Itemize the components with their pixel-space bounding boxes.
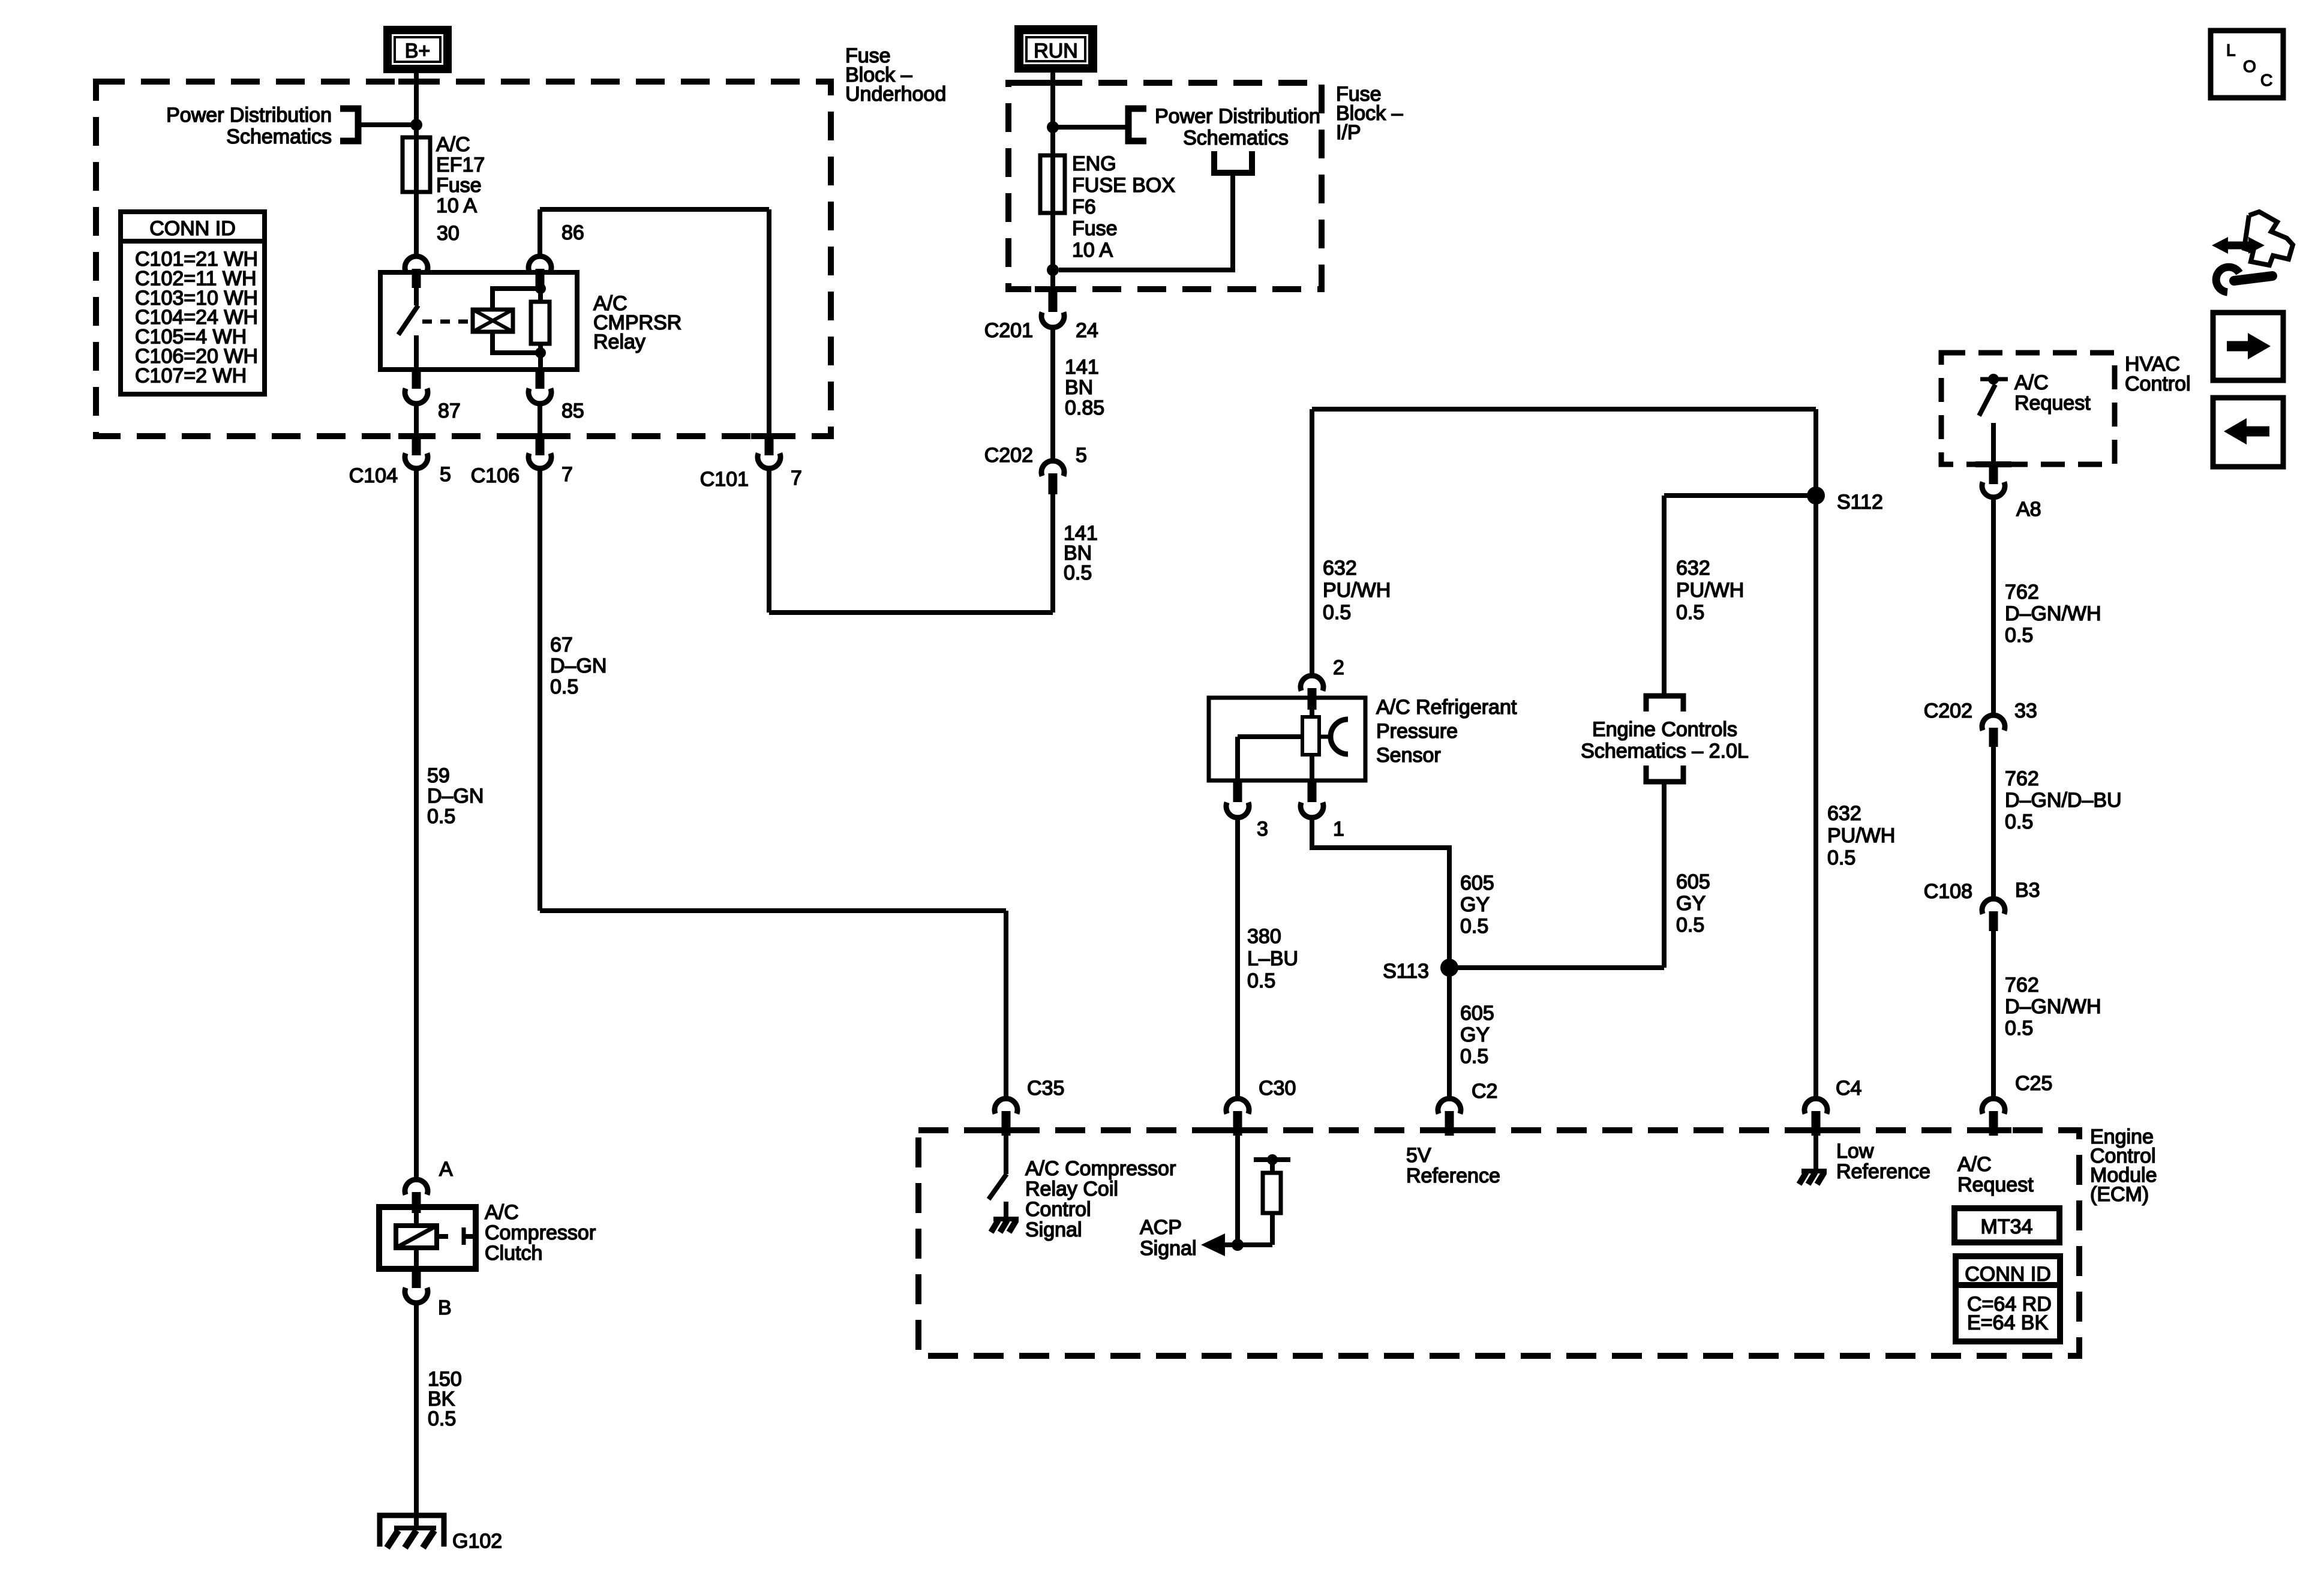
ACP signal line: [1223, 1242, 1272, 1247]
relay switch fixed contact stub: [414, 272, 419, 305]
wire C104 to compressor clutch A (59 D-GN): [414, 469, 419, 1178]
label ENG FUSE BOX F6 Fuse 10 A: [1072, 152, 1175, 262]
svg-text:(ECM): (ECM): [2090, 1183, 2149, 1206]
label pin B of clutch: [438, 1296, 452, 1319]
connector pin B of clutch: [405, 1269, 428, 1303]
wire sensor pin 3 to ECM C30 (380 L-BU): [1235, 818, 1240, 1096]
wire label 380 L-BU 0.5: [1247, 925, 1298, 992]
wire S112 to engine controls corner: [1664, 493, 1816, 498]
svg-text:GY: GY: [1460, 1023, 1490, 1046]
connector pin 3 of sensor: [1226, 781, 1249, 818]
svg-text:MT34: MT34: [1981, 1215, 2033, 1238]
connector pin 86 of relay: [529, 256, 551, 288]
svg-text:5: 5: [440, 463, 451, 486]
label Engine Control Module (ECM): [2090, 1125, 2157, 1206]
connector C201 pin 24: [1041, 289, 1064, 328]
label HVAC Control: [2125, 353, 2191, 395]
svg-text:A8: A8: [2016, 498, 2041, 521]
svg-text:C201: C201: [984, 319, 1033, 342]
svg-text:C104: C104: [349, 464, 398, 487]
A/C request switch dot: [1988, 374, 1999, 385]
border tick HVAC bottom: [1975, 461, 2011, 467]
wire label 605 GY 0.5 (above S113): [1460, 872, 1494, 938]
svg-text:Pressure: Pressure: [1376, 720, 1458, 743]
svg-text:Engine Controls: Engine Controls: [1592, 718, 1737, 741]
diagnostic icon component outline: [2244, 212, 2293, 265]
pin number 30: [437, 222, 460, 245]
ECM wire rail to resistor: [1270, 1160, 1275, 1173]
svg-text:B+: B+: [405, 40, 431, 62]
ECM CONN ID table: [1956, 1256, 2060, 1341]
svg-text:C107=2 WH: C107=2 WH: [135, 364, 247, 387]
svg-text:CONN ID: CONN ID: [1965, 1263, 2051, 1286]
svg-text:A/C: A/C: [436, 133, 470, 156]
svg-text:0.5: 0.5: [2005, 1017, 2033, 1040]
power feed symbol RUN: [1014, 25, 1097, 73]
border tick I/P bottom: [1035, 286, 1071, 292]
wire C101 to C202 run (141 BN): [769, 469, 1053, 613]
wire C202 down to corner (141 BN 0.5): [1050, 494, 1055, 613]
A/C request switch contact bar: [1980, 377, 2008, 382]
connector C101 pin 7: [758, 436, 780, 469]
svg-text:605: 605: [1460, 872, 1494, 894]
svg-text:O: O: [2243, 57, 2256, 76]
wire label 632 PU/WH 0.5 (S112-C4): [1827, 802, 1895, 869]
wire label 632 PU/WH 0.5 (engine controls): [1676, 557, 1744, 624]
connector pin 2 of sensor: [1301, 676, 1323, 710]
svg-text:0.5: 0.5: [1064, 562, 1092, 584]
label S112: [1837, 491, 1883, 514]
svg-text:C4: C4: [1836, 1077, 1861, 1100]
svg-text:BN: BN: [1065, 376, 1093, 399]
svg-text:762: 762: [2005, 974, 2039, 996]
svg-text:7: 7: [562, 463, 573, 486]
wire bracket to B+ node: [358, 122, 416, 127]
label C108: [1924, 880, 1972, 903]
wire fuse to relay pin 30: [414, 192, 419, 254]
svg-text:C202: C202: [1924, 700, 1972, 722]
svg-text:0.5: 0.5: [427, 805, 455, 828]
wire node to fuse F6: [1050, 127, 1055, 155]
ECM wire below C30: [1235, 1136, 1240, 1245]
svg-text:0.85: 0.85: [1065, 397, 1104, 419]
wire node to fuse: [414, 125, 419, 137]
svg-text:A/C Refrigerant: A/C Refrigerant: [1376, 696, 1517, 719]
ECM internal rail above resistor: [1254, 1157, 1290, 1162]
junction dot fuse F6 output: [1047, 264, 1059, 276]
svg-text:PU/WH: PU/WH: [1676, 579, 1744, 602]
bracket above Engine Controls Schematics: [1646, 696, 1683, 712]
svg-text:GY: GY: [1676, 892, 1706, 915]
svg-text:A/C Compressor: A/C Compressor: [1025, 1157, 1176, 1180]
svg-text:Schematics: Schematics: [1183, 127, 1289, 149]
label C106: [471, 464, 520, 487]
wire B+ to fuse EF17 node: [414, 73, 419, 126]
wire sensor pin 1 to S113 to C2 (605 GY): [1312, 818, 1449, 1096]
MT34 reference box: [1954, 1208, 2059, 1242]
fuse ENG FUSE BOX F6 10A: [1040, 155, 1065, 213]
connector A8 of HVAC control: [1982, 466, 2005, 497]
ACP signal arrowhead: [1201, 1233, 1225, 1256]
svg-text:A: A: [439, 1158, 453, 1181]
svg-text:C202: C202: [984, 444, 1033, 467]
svg-text:D–GN/WH: D–GN/WH: [2005, 995, 2101, 1018]
svg-text:ACP: ACP: [1140, 1216, 1182, 1239]
ground symbol at C4 low reference: [1799, 1171, 1827, 1184]
ECM driver switch blade: [989, 1174, 1007, 1199]
svg-text:Signal: Signal: [1140, 1237, 1197, 1260]
svg-text:B3: B3: [2015, 879, 2040, 902]
wire C202-33 to C108 (762 D-GN/D-BU): [1991, 747, 1996, 896]
ground G102 symbol: [380, 1515, 444, 1548]
svg-text:10 A: 10 A: [1072, 239, 1113, 262]
LOC legend box: [2211, 31, 2283, 98]
svg-text:C2: C2: [1472, 1080, 1497, 1103]
forward arrow box: [2213, 313, 2283, 380]
fuse A/C EF17 10A: [403, 137, 430, 192]
connector pin 87 of relay: [405, 370, 428, 404]
bracket under Schematics (I/P): [1214, 151, 1252, 173]
relay switch blade: [398, 305, 418, 335]
svg-text:0.5: 0.5: [1323, 601, 1351, 624]
svg-text:Low: Low: [1836, 1140, 1874, 1163]
label Fuse Block - I/P: [1336, 83, 1403, 144]
label pin A of clutch: [439, 1158, 453, 1181]
svg-text:33: 33: [2014, 700, 2037, 722]
svg-text:C30: C30: [1259, 1077, 1296, 1100]
label A/C Compressor Relay Coil Control Signal: [1025, 1157, 1176, 1241]
svg-text:L: L: [2226, 41, 2236, 59]
svg-text:7: 7: [791, 467, 802, 490]
svg-text:30: 30: [437, 222, 460, 245]
svg-text:2: 2: [1333, 656, 1344, 679]
label C4: [1836, 1077, 1861, 1100]
svg-text:1: 1: [1333, 818, 1344, 840]
label pin 24 of C201: [1076, 319, 1098, 342]
connector pin 85 of relay: [529, 370, 551, 404]
svg-text:C: C: [2260, 71, 2272, 89]
junction dot at B+ feed: [410, 119, 422, 131]
label pin 5 of C104: [440, 463, 451, 486]
label pin 3 of sensor: [1257, 818, 1268, 840]
label S113: [1383, 960, 1429, 983]
svg-text:0.5: 0.5: [2005, 624, 2033, 647]
junction dot RUN feed: [1047, 121, 1059, 133]
svg-text:24: 24: [1076, 319, 1098, 342]
relay actuation dashed link: [422, 320, 472, 324]
power feed symbol B+: [383, 26, 452, 73]
svg-text:EF17: EF17: [436, 154, 485, 176]
sensor transducer element: [1302, 717, 1319, 755]
svg-text:C25: C25: [2015, 1072, 2052, 1095]
relay switch lower stub: [414, 335, 419, 370]
label ACP Signal: [1140, 1216, 1197, 1260]
sensor internal wire transducer to pin1: [1310, 755, 1314, 781]
svg-text:Control: Control: [1025, 1198, 1091, 1221]
label A8: [2016, 498, 2041, 521]
sensor internal wire pin2 to transducer: [1310, 698, 1314, 717]
svg-text:RUN: RUN: [1034, 40, 1078, 62]
svg-text:3: 3: [1257, 818, 1268, 840]
svg-text:A/C: A/C: [1957, 1153, 1992, 1176]
svg-text:F6: F6: [1072, 196, 1096, 218]
clutch air gap T-bar: [464, 1227, 475, 1245]
splice S112: [1807, 487, 1825, 505]
clutch air gap stub: [437, 1234, 448, 1239]
svg-text:Relay: Relay: [593, 331, 645, 353]
svg-text:A/C: A/C: [485, 1201, 519, 1224]
svg-text:C35: C35: [1027, 1077, 1064, 1100]
label pin 5 of C202: [1076, 444, 1087, 467]
label A/C EF17 Fuse 10 A: [436, 133, 485, 217]
svg-text:Power Distribution: Power Distribution: [166, 104, 332, 127]
connector C106 pin 7: [529, 436, 551, 469]
svg-text:5V: 5V: [1406, 1144, 1431, 1167]
svg-text:632: 632: [1323, 557, 1357, 580]
junction dot ACP node: [1232, 1239, 1244, 1251]
svg-text:0.5: 0.5: [428, 1407, 456, 1430]
connector pin 30 of relay: [405, 256, 428, 288]
svg-text:Relay Coil: Relay Coil: [1025, 1178, 1118, 1200]
label C35: [1027, 1077, 1064, 1100]
sensor pressure port crescent: [1331, 719, 1348, 754]
svg-text:0.5: 0.5: [1460, 915, 1488, 938]
svg-text:D–GN/WH: D–GN/WH: [2005, 602, 2101, 625]
fuse block I/P dashed box: [1008, 83, 1322, 289]
svg-text:762: 762: [2005, 767, 2039, 790]
svg-text:85: 85: [562, 400, 584, 422]
svg-text:Signal: Signal: [1025, 1218, 1082, 1241]
wire C108 to ECM C25 (762 D-GN/WH): [1991, 931, 1996, 1096]
border ticks underhood bottom: [398, 433, 787, 439]
back arrow box: [2213, 398, 2283, 467]
label Power Distribution Schematics (underhood): [166, 104, 332, 148]
border tick at B+ entry: [398, 79, 434, 85]
splice S113: [1440, 959, 1458, 977]
fuse block underhood dashed box: [96, 82, 831, 436]
svg-text:Underhood: Underhood: [845, 83, 946, 106]
label pin B3 of C108: [2015, 879, 2040, 902]
svg-text:S113: S113: [1383, 960, 1429, 983]
label C104: [349, 464, 398, 487]
wire C106 to ECM C35 (67 D-GN): [540, 469, 1006, 1096]
pin number 86: [562, 221, 584, 244]
wire sensor pin 2 feed (632 PU/WH): [1312, 409, 1816, 673]
sensor pressure port stub: [1319, 735, 1331, 739]
connector C108 pin B3: [1982, 899, 2005, 931]
wire label 141 BN 0.85: [1065, 356, 1104, 419]
svg-text:10 A: 10 A: [436, 194, 477, 217]
connector C202 pin 33: [1982, 715, 2005, 747]
junction dot on rail: [1267, 1154, 1278, 1165]
diagnostic icon double arrow: [2212, 237, 2265, 254]
pin number 87: [438, 400, 461, 422]
label pin 7 of C106: [562, 463, 573, 486]
label Fuse Block - Underhood: [845, 44, 946, 106]
wire bracket down-left to fuse output node: [1059, 173, 1233, 270]
svg-text:Request: Request: [2014, 392, 2091, 415]
wire label 67 D-GN 0.5: [550, 634, 606, 698]
wire label 141 BN 0.5: [1064, 522, 1098, 584]
relay internal wire resistor to pin85: [538, 344, 543, 370]
wire label 762 D-GN/D-BU 0.5: [2005, 767, 2122, 833]
label G102: [452, 1530, 502, 1553]
label A/C Compressor Clutch: [485, 1201, 596, 1265]
wire label 605 GY 0.5 (right branch): [1676, 870, 1710, 936]
svg-text:762: 762: [2005, 581, 2039, 604]
label A/C Refrigerant Pressure Sensor: [1376, 696, 1517, 767]
label Engine Controls Schematics - 2.0L: [1581, 718, 1749, 763]
label C202 (pin 5): [984, 444, 1033, 467]
HVAC control dashed box: [1941, 353, 2115, 464]
svg-text:0.5: 0.5: [550, 676, 578, 698]
label pin 2 of sensor: [1333, 656, 1344, 679]
bracket below Engine Controls Schematics: [1646, 766, 1683, 782]
svg-text:380: 380: [1247, 925, 1281, 948]
label C202 (pin 33): [1924, 700, 1972, 722]
svg-text:Compressor: Compressor: [485, 1221, 596, 1244]
svg-text:L–BU: L–BU: [1247, 947, 1298, 970]
wire node to bracket (I/P): [1053, 125, 1128, 130]
clutch internal wire bottom: [414, 1248, 419, 1269]
wire label 762 D-GN/WH 0.5 (upper): [2005, 581, 2101, 647]
relay box A/C CMPRSR: [380, 272, 577, 370]
connector pin A of clutch: [405, 1179, 428, 1213]
wire label 762 D-GN/WH 0.5 (lower): [2005, 974, 2101, 1040]
connector C25 of ECM: [1982, 1098, 2005, 1136]
wire C201 to C202 (141 BN 0.85): [1050, 328, 1055, 458]
svg-text:D–GN: D–GN: [550, 655, 606, 677]
label C30: [1259, 1077, 1296, 1100]
svg-text:86: 86: [562, 221, 584, 244]
wire S113 to engine controls branch: [1449, 965, 1664, 970]
label pin 33 of C202: [2014, 700, 2037, 722]
wire fuse F6 to C201: [1050, 213, 1055, 289]
svg-text:Fuse: Fuse: [436, 174, 482, 197]
label C2: [1472, 1080, 1497, 1103]
wire pin 85 to C106: [538, 404, 542, 436]
clutch coil box with diagonal: [396, 1226, 437, 1248]
relay coil crossed box: [473, 310, 513, 332]
svg-text:C106: C106: [471, 464, 520, 487]
svg-text:0.5: 0.5: [1827, 846, 1855, 869]
svg-text:605: 605: [1460, 1002, 1494, 1025]
svg-text:632: 632: [1676, 557, 1710, 580]
svg-text:Schematics – 2.0L: Schematics – 2.0L: [1581, 740, 1749, 763]
wire S112 branch down to engine controls ref: [1662, 496, 1667, 695]
label Low Reference: [1836, 1140, 1930, 1183]
label A/C CMPRSR Relay: [593, 292, 681, 353]
svg-text:141: 141: [1065, 356, 1099, 379]
diagnostic icon wrench: [2216, 267, 2272, 292]
wire label 632 PU/WH 0.5 (sensor): [1323, 557, 1391, 624]
bracket to Power Distribution Schematics (I/P): [1128, 109, 1146, 141]
pin number 85: [562, 400, 584, 422]
svg-text:5: 5: [1076, 444, 1087, 467]
ECM wire below C4: [1813, 1136, 1818, 1170]
svg-text:PU/WH: PU/WH: [1827, 824, 1895, 847]
svg-text:GY: GY: [1460, 893, 1490, 916]
svg-text:632: 632: [1827, 802, 1861, 825]
connector C35 of ECM: [995, 1098, 1017, 1136]
junction dot relay coil top: [535, 283, 546, 294]
svg-text:Reference: Reference: [1406, 1164, 1500, 1187]
wire engine controls ref to S113: [1662, 782, 1667, 968]
svg-text:Control: Control: [2125, 373, 2191, 395]
svg-text:I/P: I/P: [1336, 121, 1361, 144]
label A/C Request (HVAC): [2014, 371, 2091, 415]
svg-text:G102: G102: [452, 1530, 502, 1553]
wire A8 to C202-33 (762 D-GN/WH): [1991, 497, 1996, 713]
relay coil upper loop wire: [493, 289, 539, 310]
label A/C Request (ECM): [1957, 1153, 2034, 1196]
svg-text:S112: S112: [1837, 491, 1883, 514]
svg-text:Fuse: Fuse: [1072, 217, 1118, 240]
svg-text:Sensor: Sensor: [1376, 744, 1441, 767]
svg-text:0.5: 0.5: [1676, 601, 1704, 624]
label 5V Reference: [1406, 1144, 1500, 1187]
svg-text:Power Distribution: Power Distribution: [1155, 105, 1320, 128]
svg-text:C108: C108: [1924, 880, 1972, 903]
svg-text:59: 59: [427, 764, 450, 787]
svg-text:A/C: A/C: [2014, 371, 2049, 394]
junction dot relay coil bottom: [535, 347, 546, 358]
relay coil lower loop wire: [493, 332, 539, 353]
svg-text:87: 87: [438, 400, 461, 422]
svg-text:B: B: [438, 1296, 452, 1319]
svg-text:E=64 BK: E=64 BK: [1967, 1311, 2048, 1334]
label C201: [984, 319, 1033, 342]
svg-text:0.5: 0.5: [1676, 914, 1704, 936]
svg-text:0.5: 0.5: [2005, 810, 2033, 833]
svg-text:C101: C101: [700, 468, 749, 491]
connector C4 of ECM: [1804, 1098, 1827, 1136]
connector pin 1 of sensor: [1301, 781, 1323, 818]
border tick RUN entry: [1035, 80, 1071, 86]
label Power Distribution Schematics (I/P): [1155, 105, 1320, 149]
label pin 1 of sensor: [1333, 818, 1344, 840]
svg-text:CONN ID: CONN ID: [149, 217, 236, 240]
wire label 605 GY 0.5 (below S113): [1460, 1002, 1494, 1068]
A/C request switch blade: [1979, 385, 1995, 416]
wire pin 87 to C104: [414, 404, 419, 436]
svg-text:ENG: ENG: [1072, 152, 1116, 175]
ECM driver lower stub: [1004, 1202, 1008, 1217]
bracket to Power Distribution Schematics (underhood): [340, 109, 358, 141]
wire RUN into fuse block: [1050, 73, 1055, 127]
wire label 59 D-GN 0.5: [427, 764, 484, 828]
svg-text:0.5: 0.5: [1460, 1045, 1488, 1068]
clutch internal wire top: [414, 1207, 419, 1226]
sensor internal wire to pin 3: [1238, 737, 1302, 781]
svg-text:D–GN: D–GN: [427, 785, 484, 807]
ground symbol at ECM driver: [991, 1219, 1019, 1232]
A/C compressor clutch box: [379, 1207, 476, 1269]
CONN ID table (underhood): [121, 212, 265, 394]
label C101: [700, 468, 749, 491]
wire relay pin 86 to C101: [540, 209, 769, 436]
svg-text:0.5: 0.5: [1247, 969, 1275, 992]
svg-text:Clutch: Clutch: [485, 1242, 542, 1265]
engine control module dashed box: [918, 1130, 2079, 1356]
svg-text:67: 67: [550, 634, 573, 656]
svg-text:Reference: Reference: [1836, 1160, 1930, 1183]
ECM pull-up resistor: [1263, 1173, 1281, 1213]
svg-text:PU/WH: PU/WH: [1323, 579, 1391, 602]
wire switch to A8: [1991, 423, 1996, 466]
wire S112 to C4 (632 PU/WH): [1813, 409, 1818, 1096]
connector C2 of ECM: [1438, 1098, 1461, 1136]
